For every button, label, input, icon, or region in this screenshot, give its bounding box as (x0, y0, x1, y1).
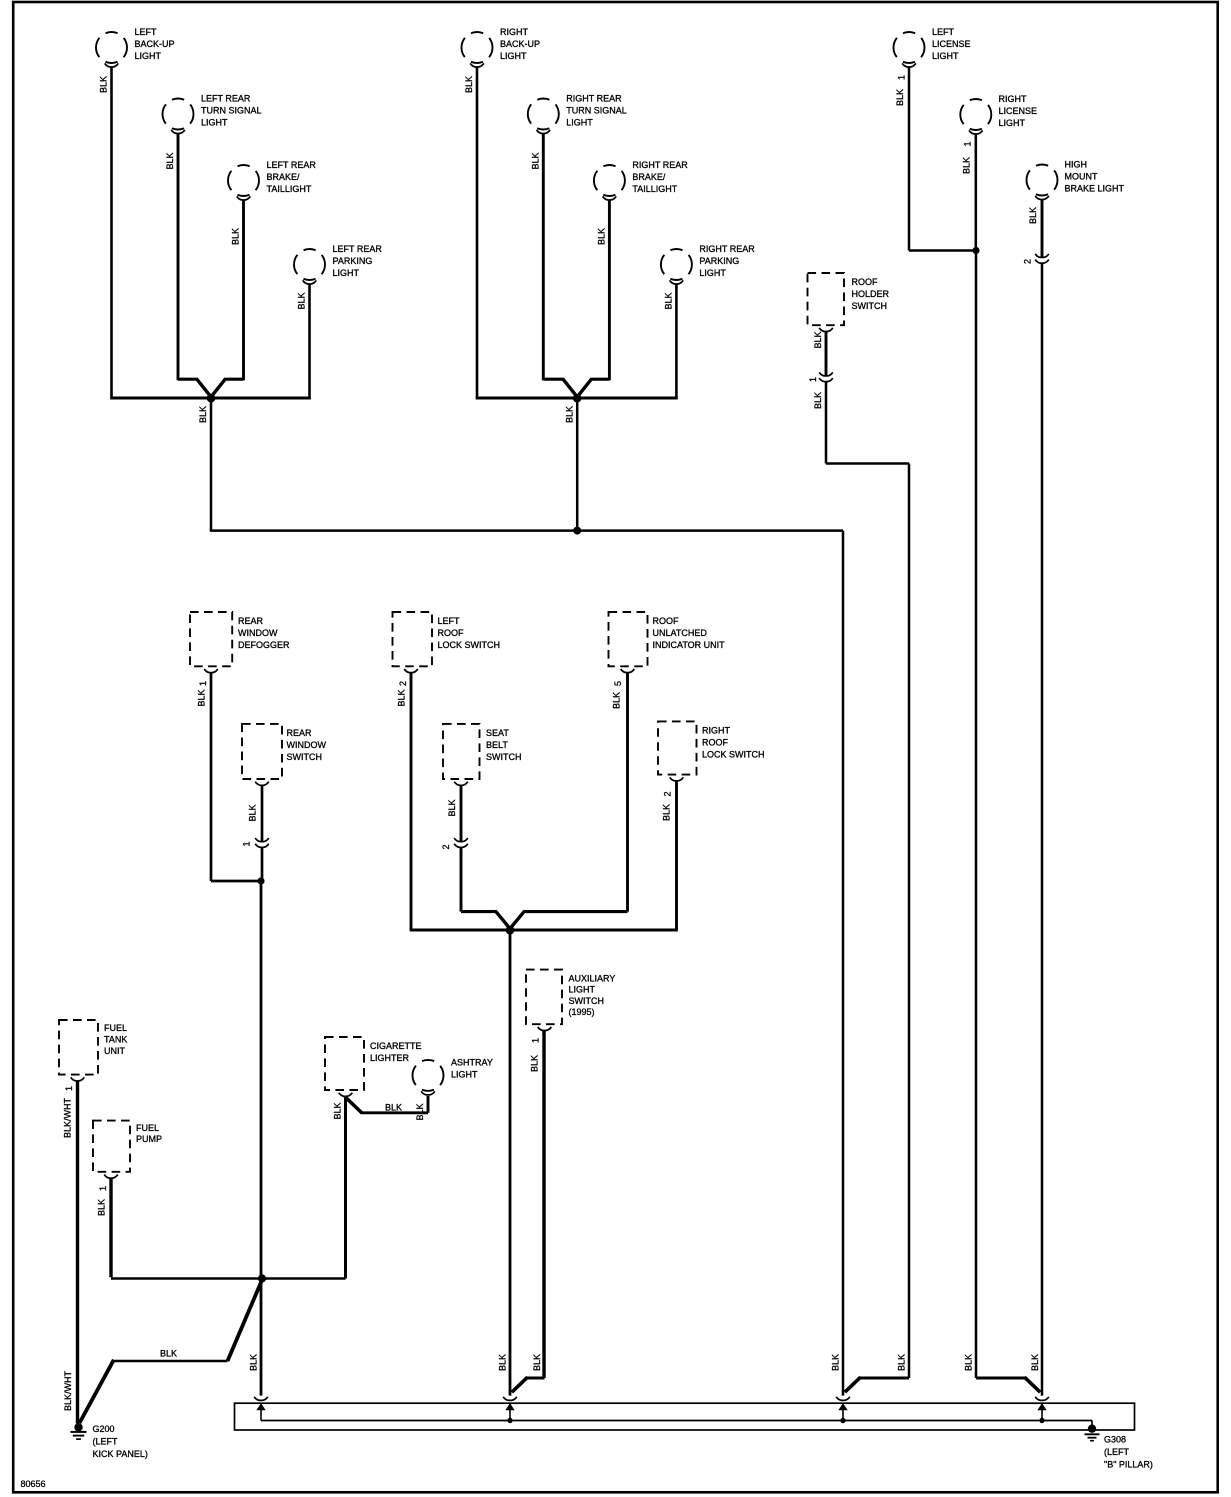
svg-text:LEFT REAR: LEFT REAR (267, 160, 317, 170)
svg-text:BLK: BLK (530, 1055, 540, 1072)
svg-text:BLK: BLK (964, 1354, 974, 1371)
svg-text:BLK: BLK (198, 406, 208, 423)
svg-text:CIGARETTE: CIGARETTE (370, 1041, 422, 1051)
svg-text:BLK: BLK (813, 392, 823, 409)
svg-text:ASHTRAY: ASHTRAY (451, 1057, 493, 1067)
svg-text:(LEFT: (LEFT (93, 1436, 119, 1446)
svg-text:UNLATCHED: UNLATCHED (653, 628, 708, 638)
svg-text:FUEL: FUEL (136, 1123, 159, 1133)
svg-text:BLK: BLK (831, 1354, 841, 1371)
svg-text:LIGHT: LIGHT (699, 268, 726, 278)
svg-text:BLK/WHT: BLK/WHT (63, 1370, 73, 1411)
svg-text:SEAT: SEAT (486, 728, 509, 738)
svg-text:RIGHT: RIGHT (500, 27, 529, 37)
svg-text:BLK: BLK (249, 1354, 259, 1371)
svg-text:PARKING: PARKING (333, 256, 373, 266)
svg-text:ROOF: ROOF (653, 616, 680, 626)
svg-text:PARKING: PARKING (699, 256, 739, 266)
svg-text:BLK: BLK (564, 406, 574, 423)
svg-text:1: 1 (64, 1086, 74, 1091)
svg-text:BRAKE/: BRAKE/ (267, 172, 301, 182)
svg-text:TAILLIGHT: TAILLIGHT (632, 184, 677, 194)
svg-text:BRAKE/: BRAKE/ (632, 172, 666, 182)
svg-text:(1995): (1995) (569, 1007, 595, 1017)
svg-text:2: 2 (663, 791, 673, 796)
svg-text:LEFT: LEFT (135, 27, 158, 37)
svg-text:BLK: BLK (99, 76, 109, 93)
svg-text:FUEL: FUEL (104, 1023, 127, 1033)
svg-text:2: 2 (441, 844, 451, 849)
svg-text:BLK: BLK (1030, 1354, 1040, 1371)
svg-text:TURN SIGNAL: TURN SIGNAL (566, 105, 627, 115)
svg-text:ROOF: ROOF (702, 738, 729, 748)
svg-text:BLK: BLK (530, 152, 540, 169)
svg-text:LEFT: LEFT (932, 27, 955, 37)
svg-text:SWITCH: SWITCH (569, 996, 605, 1006)
svg-text:BLK: BLK (385, 1103, 402, 1113)
svg-text:HOLDER: HOLDER (852, 289, 890, 299)
svg-text:BLK/WHT: BLK/WHT (63, 1097, 73, 1138)
svg-text:LEFT REAR: LEFT REAR (201, 93, 251, 103)
svg-text:1: 1 (963, 141, 973, 146)
svg-text:BLK: BLK (895, 89, 905, 106)
svg-text:LIGHT: LIGHT (135, 51, 162, 61)
svg-text:SWITCH: SWITCH (287, 752, 323, 762)
svg-text:LIGHTER: LIGHTER (370, 1053, 410, 1063)
svg-text:RIGHT: RIGHT (702, 725, 731, 735)
svg-text:LOCK SWITCH: LOCK SWITCH (438, 640, 501, 650)
svg-text:BLK: BLK (532, 1354, 542, 1371)
svg-text:BLK: BLK (447, 799, 457, 816)
svg-text:SWITCH: SWITCH (852, 301, 888, 311)
svg-text:BLK: BLK (197, 689, 207, 706)
svg-text:LIGHT: LIGHT (201, 118, 228, 128)
svg-text:1: 1 (531, 1038, 541, 1043)
svg-text:ROOF: ROOF (852, 277, 879, 287)
svg-text:BLK: BLK (464, 76, 474, 93)
svg-text:LICENSE: LICENSE (999, 106, 1038, 116)
svg-text:RIGHT REAR: RIGHT REAR (566, 93, 622, 103)
svg-text:BLK: BLK (498, 1354, 508, 1371)
svg-text:LIGHT: LIGHT (999, 118, 1026, 128)
svg-text:INDICATOR UNIT: INDICATOR UNIT (653, 640, 726, 650)
svg-text:LEFT REAR: LEFT REAR (333, 244, 383, 254)
svg-text:BLK: BLK (231, 228, 241, 245)
svg-text:BACK-UP: BACK-UP (500, 39, 540, 49)
svg-text:TURN SIGNAL: TURN SIGNAL (201, 105, 262, 115)
svg-text:LIGHT: LIGHT (451, 1069, 478, 1079)
svg-text:RIGHT REAR: RIGHT REAR (699, 244, 755, 254)
svg-text:PUMP: PUMP (136, 1134, 162, 1144)
svg-text:G200: G200 (93, 1424, 115, 1434)
svg-text:1: 1 (98, 1186, 108, 1191)
svg-text:LOCK SWITCH: LOCK SWITCH (702, 750, 765, 760)
svg-text:BLK: BLK (97, 1199, 107, 1216)
svg-text:BLK: BLK (333, 1102, 343, 1119)
svg-text:"B" PILLAR): "B" PILLAR) (1104, 1459, 1153, 1469)
svg-text:ROOF: ROOF (438, 628, 465, 638)
svg-text:2: 2 (1023, 259, 1033, 264)
svg-text:5: 5 (613, 681, 623, 686)
svg-text:BLK: BLK (415, 1103, 425, 1120)
svg-text:1: 1 (242, 841, 252, 846)
svg-text:LIGHT: LIGHT (500, 51, 527, 61)
svg-text:LEFT: LEFT (438, 616, 461, 626)
svg-text:BLK: BLK (962, 157, 972, 174)
svg-text:BACK-UP: BACK-UP (135, 39, 175, 49)
svg-text:BLK: BLK (160, 1349, 177, 1359)
svg-text:1: 1 (897, 75, 907, 80)
svg-text:HIGH: HIGH (1065, 159, 1088, 169)
svg-text:(LEFT: (LEFT (1104, 1447, 1130, 1457)
svg-text:RIGHT REAR: RIGHT REAR (632, 160, 688, 170)
svg-text:MOUNT: MOUNT (1065, 171, 1098, 181)
svg-text:BLK: BLK (297, 292, 307, 309)
svg-text:RIGHT: RIGHT (999, 94, 1028, 104)
svg-text:G308: G308 (1104, 1435, 1126, 1445)
svg-text:AUXILIARY: AUXILIARY (569, 973, 616, 983)
svg-text:BLK: BLK (662, 804, 672, 821)
svg-text:LIGHT: LIGHT (932, 51, 959, 61)
svg-text:BLK: BLK (813, 331, 823, 348)
svg-text:BRAKE LIGHT: BRAKE LIGHT (1065, 184, 1125, 194)
svg-text:BLK: BLK (1028, 207, 1038, 224)
svg-text:1: 1 (808, 377, 818, 382)
svg-text:WINDOW: WINDOW (287, 740, 327, 750)
svg-text:LIGHT: LIGHT (333, 268, 360, 278)
svg-text:LIGHT: LIGHT (566, 118, 593, 128)
svg-text:KICK PANEL): KICK PANEL) (93, 1449, 148, 1459)
svg-text:SWITCH: SWITCH (486, 752, 522, 762)
svg-text:UNIT: UNIT (104, 1046, 125, 1056)
svg-text:BLK: BLK (596, 228, 606, 245)
svg-text:DEFOGGER: DEFOGGER (238, 640, 290, 650)
svg-text:LICENSE: LICENSE (932, 39, 971, 49)
svg-text:TANK: TANK (104, 1034, 127, 1044)
svg-text:BLK: BLK (663, 292, 673, 309)
svg-text:1: 1 (198, 681, 208, 686)
svg-text:BELT: BELT (486, 740, 508, 750)
svg-text:BLK: BLK (897, 1354, 907, 1371)
svg-text:BLK: BLK (397, 689, 407, 706)
svg-text:2: 2 (398, 681, 408, 686)
svg-text:TAILLIGHT: TAILLIGHT (267, 184, 312, 194)
svg-text:BLK: BLK (248, 804, 258, 821)
svg-text:BLK: BLK (165, 152, 175, 169)
svg-text:REAR: REAR (238, 616, 264, 626)
svg-text:REAR: REAR (287, 728, 313, 738)
svg-text:80656: 80656 (21, 1479, 46, 1489)
svg-text:BLK: BLK (612, 692, 622, 709)
svg-text:LIGHT: LIGHT (569, 985, 596, 995)
svg-text:WINDOW: WINDOW (238, 628, 278, 638)
